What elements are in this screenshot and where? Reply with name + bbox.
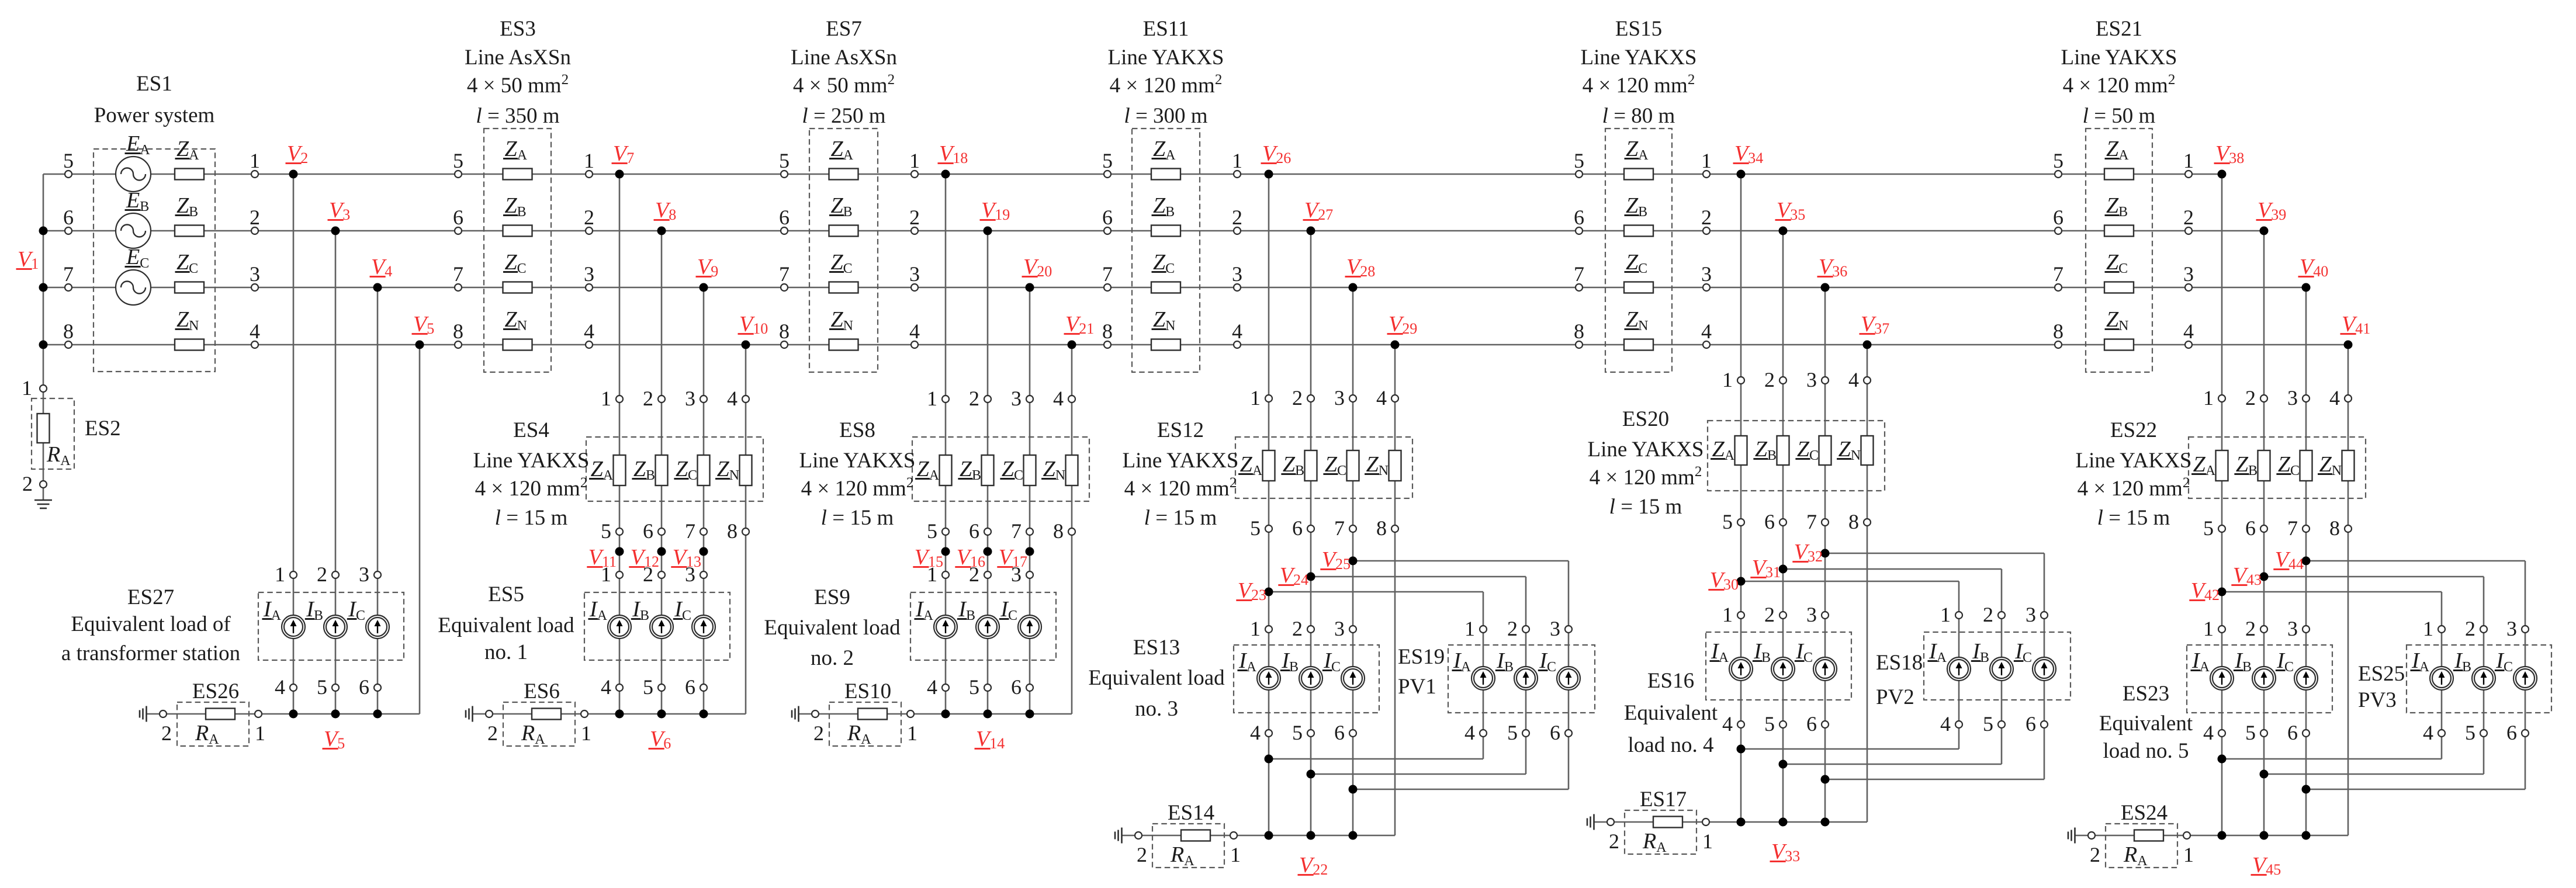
svg-text:1: 1 [601,563,611,586]
svg-text:1: 1 [1701,149,1712,172]
svg-text:3: 3 [250,262,260,286]
svg-text:2: 2 [909,206,920,229]
svg-text:1: 1 [909,149,920,172]
svg-text:2: 2 [2090,843,2100,866]
svg-text:2: 2 [2245,386,2256,410]
svg-text:ES7: ES7 [826,17,862,41]
svg-text:7: 7 [2287,516,2298,540]
svg-text:4: 4 [250,320,260,343]
svg-text:4: 4 [1940,712,1951,736]
svg-text:Line YAKXS: Line YAKXS [1587,438,1704,462]
svg-text:2: 2 [1764,368,1775,391]
svg-text:ES24: ES24 [2121,801,2168,825]
svg-text:PV2: PV2 [1876,685,1914,709]
svg-text:1: 1 [250,149,260,172]
svg-text:no. 2: no. 2 [811,646,854,670]
svg-text:2: 2 [487,721,498,745]
svg-text:8: 8 [453,320,463,343]
svg-text:5: 5 [969,675,979,699]
svg-text:6: 6 [2506,721,2517,744]
svg-text:ES25: ES25 [2358,662,2405,686]
svg-text:6: 6 [1764,510,1775,533]
svg-text:ES6: ES6 [524,679,560,703]
svg-text:4 × 120 mm2: 4 × 120 mm2 [1590,464,1702,490]
svg-text:l = 350 m: l = 350 m [476,104,559,128]
svg-text:6: 6 [2287,721,2298,744]
svg-text:6: 6 [685,675,695,699]
svg-text:8: 8 [1376,516,1387,540]
svg-text:2: 2 [1983,603,1993,626]
svg-text:2: 2 [1292,386,1303,410]
svg-text:PV1: PV1 [1398,675,1436,699]
svg-text:ES15: ES15 [1615,17,1662,41]
svg-text:ES12: ES12 [1157,418,1204,442]
svg-text:4: 4 [2183,320,2194,343]
svg-text:Line AsXSn: Line AsXSn [465,46,571,70]
svg-text:4: 4 [601,675,611,699]
svg-text:3: 3 [2287,386,2298,410]
svg-text:5: 5 [1102,149,1113,172]
svg-text:4: 4 [1232,320,1242,343]
svg-text:3: 3 [685,563,695,586]
svg-text:1: 1 [1722,368,1733,391]
svg-text:2: 2 [2245,617,2256,640]
svg-text:2: 2 [22,472,33,495]
svg-text:5: 5 [1764,712,1775,736]
svg-text:7: 7 [63,262,74,286]
svg-text:Line AsXSn: Line AsXSn [791,46,897,70]
svg-text:1: 1 [2203,617,2214,640]
svg-text:4: 4 [927,675,937,699]
svg-text:8: 8 [2053,320,2063,343]
svg-text:4: 4 [1250,721,1261,744]
svg-text:1: 1 [581,721,591,745]
svg-text:2: 2 [161,721,172,745]
svg-text:a transformer station: a transformer station [61,641,240,665]
svg-text:2: 2 [250,206,260,229]
svg-text:3: 3 [1334,386,1345,410]
svg-text:6: 6 [1102,206,1113,229]
svg-text:1: 1 [584,149,594,172]
svg-text:8: 8 [727,519,738,543]
svg-text:no. 1: no. 1 [484,640,528,664]
svg-text:3: 3 [1550,617,1560,640]
svg-text:4 × 120 mm2: 4 × 120 mm2 [1124,475,1237,501]
svg-text:load no. 5: load no. 5 [2103,739,2189,763]
svg-text:4 × 120 mm2: 4 × 120 mm2 [475,475,588,501]
svg-text:6: 6 [969,519,979,543]
svg-text:ES13: ES13 [1133,636,1180,660]
svg-text:1: 1 [22,376,32,400]
svg-text:8: 8 [1053,519,1064,543]
svg-text:4: 4 [727,387,738,410]
svg-text:4 × 120 mm2: 4 × 120 mm2 [1583,72,1695,98]
svg-text:l = 50 m: l = 50 m [2083,104,2156,128]
svg-text:Line YAKXS: Line YAKXS [473,449,589,473]
svg-text:8: 8 [1574,320,1584,343]
svg-text:8: 8 [2329,516,2340,540]
svg-text:7: 7 [1102,262,1113,286]
svg-text:ES19: ES19 [1398,645,1445,669]
svg-text:1: 1 [1230,843,1241,866]
svg-text:6: 6 [359,675,369,699]
svg-text:3: 3 [1806,368,1817,391]
svg-text:ES11: ES11 [1143,17,1189,41]
svg-text:1: 1 [255,721,265,745]
svg-text:5: 5 [1722,510,1733,533]
svg-text:2: 2 [1137,843,1147,866]
svg-text:l = 15 m: l = 15 m [1144,506,1217,530]
svg-text:1: 1 [927,563,937,586]
svg-text:8: 8 [63,320,74,343]
svg-text:5: 5 [779,149,790,172]
svg-text:5: 5 [1507,721,1518,744]
svg-text:2: 2 [2183,206,2194,229]
svg-text:4 × 50 mm2: 4 × 50 mm2 [793,72,895,98]
svg-text:load no. 4: load no. 4 [1628,733,1714,757]
svg-text:Equivalent: Equivalent [1624,701,1718,725]
svg-text:5: 5 [643,675,653,699]
svg-text:4: 4 [1722,712,1733,736]
svg-text:7: 7 [1011,519,1022,543]
svg-text:3: 3 [909,262,920,286]
svg-text:1: 1 [927,387,937,410]
svg-text:4: 4 [1701,320,1712,343]
svg-text:ES5: ES5 [488,582,524,606]
svg-text:2: 2 [317,563,327,586]
svg-text:7: 7 [1334,516,1345,540]
svg-text:1: 1 [601,387,611,410]
svg-text:4: 4 [275,675,285,699]
svg-text:ES27: ES27 [127,585,174,609]
svg-text:6: 6 [1011,675,1022,699]
svg-text:no. 3: no. 3 [1135,697,1178,721]
svg-text:1: 1 [1722,603,1733,626]
svg-text:2: 2 [643,387,653,410]
svg-text:6: 6 [1550,721,1560,744]
svg-text:4: 4 [2203,721,2214,744]
svg-text:2: 2 [813,721,824,745]
svg-text:2: 2 [643,563,653,586]
svg-text:ES10: ES10 [844,679,891,703]
svg-text:4 × 120 mm2: 4 × 120 mm2 [1110,72,1223,98]
svg-text:6: 6 [2053,206,2063,229]
svg-text:ES18: ES18 [1876,651,1923,675]
svg-text:4: 4 [584,320,594,343]
svg-text:Line YAKXS: Line YAKXS [2075,449,2191,473]
svg-text:1: 1 [1250,386,1261,410]
svg-text:l = 15 m: l = 15 m [821,506,894,530]
svg-text:4: 4 [2423,721,2433,744]
svg-text:1: 1 [1464,617,1475,640]
svg-text:Line YAKXS: Line YAKXS [1107,46,1224,70]
svg-text:2: 2 [1609,830,1619,853]
svg-text:3: 3 [1011,563,1022,586]
svg-text:4 × 120 mm2: 4 × 120 mm2 [2063,72,2176,98]
svg-text:3: 3 [1806,603,1817,626]
svg-text:8: 8 [1848,510,1859,533]
svg-text:5: 5 [2245,721,2256,744]
svg-text:1: 1 [1232,149,1242,172]
svg-text:3: 3 [1011,387,1022,410]
svg-text:6: 6 [1334,721,1345,744]
svg-text:1: 1 [1702,830,1713,853]
svg-text:5: 5 [2203,516,2214,540]
svg-text:6: 6 [2026,712,2036,736]
svg-text:Line YAKXS: Line YAKXS [1122,449,1238,473]
svg-text:PV3: PV3 [2358,688,2397,712]
svg-text:4 × 120 mm2: 4 × 120 mm2 [801,475,914,501]
svg-text:6: 6 [2245,516,2256,540]
svg-text:8: 8 [779,320,790,343]
svg-text:7: 7 [1806,510,1817,533]
svg-text:5: 5 [601,519,611,543]
svg-text:l = 300 m: l = 300 m [1124,104,1207,128]
svg-text:3: 3 [2183,262,2194,286]
svg-text:l = 15 m: l = 15 m [495,506,568,530]
svg-text:6: 6 [63,206,74,229]
svg-text:3: 3 [584,262,594,286]
svg-text:Line YAKXS: Line YAKXS [2061,46,2177,70]
svg-text:4: 4 [1848,368,1859,391]
svg-text:2: 2 [2465,617,2475,640]
svg-text:5: 5 [317,675,327,699]
svg-text:6: 6 [1574,206,1584,229]
svg-text:1: 1 [907,721,917,745]
svg-text:ES1: ES1 [136,72,172,96]
svg-text:ES16: ES16 [1647,669,1694,693]
svg-text:Power system: Power system [94,103,215,127]
svg-text:1: 1 [1940,603,1951,626]
svg-text:Equivalent load: Equivalent load [438,613,574,637]
svg-text:ES22: ES22 [2110,418,2157,442]
svg-text:3: 3 [359,563,369,586]
svg-text:ES17: ES17 [1640,788,1687,811]
svg-text:4: 4 [1464,721,1475,744]
svg-text:ES8: ES8 [839,418,875,442]
svg-text:5: 5 [1574,149,1584,172]
svg-text:5: 5 [1983,712,1993,736]
svg-text:3: 3 [2287,617,2298,640]
svg-text:2: 2 [1232,206,1242,229]
svg-text:ES9: ES9 [814,585,850,609]
svg-text:5: 5 [63,149,74,172]
svg-text:5: 5 [453,149,463,172]
svg-text:ES23: ES23 [2123,682,2169,706]
svg-text:1: 1 [2423,617,2433,640]
svg-text:7: 7 [2053,262,2063,286]
svg-text:4 × 50 mm2: 4 × 50 mm2 [467,72,569,98]
svg-text:4: 4 [1376,386,1387,410]
svg-text:4: 4 [2329,386,2340,410]
svg-text:Equivalent: Equivalent [2099,712,2193,736]
svg-text:7: 7 [685,519,695,543]
svg-text:1: 1 [2183,149,2194,172]
svg-text:4: 4 [1053,387,1064,410]
svg-text:Line YAKXS: Line YAKXS [1580,46,1696,70]
svg-text:3: 3 [685,387,695,410]
svg-text:2: 2 [969,387,979,410]
svg-text:6: 6 [779,206,790,229]
svg-text:ES3: ES3 [500,17,536,41]
svg-text:ES26: ES26 [192,679,239,703]
svg-text:Line YAKXS: Line YAKXS [799,449,915,473]
svg-text:7: 7 [1574,262,1584,286]
svg-text:3: 3 [2506,617,2517,640]
svg-text:ES14: ES14 [1168,801,1214,825]
svg-text:4 × 120 mm2: 4 × 120 mm2 [2078,475,2190,501]
svg-text:6: 6 [643,519,653,543]
svg-text:2: 2 [584,206,594,229]
svg-text:4: 4 [909,320,920,343]
svg-text:5: 5 [1292,721,1303,744]
svg-text:5: 5 [1250,516,1261,540]
svg-text:2: 2 [1292,617,1303,640]
svg-text:1: 1 [1250,617,1261,640]
svg-text:l = 15 m: l = 15 m [2097,506,2170,530]
svg-text:Equivalent load of: Equivalent load of [71,612,231,636]
svg-text:5: 5 [2053,149,2063,172]
svg-text:8: 8 [1102,320,1113,343]
svg-text:2: 2 [1507,617,1518,640]
svg-text:6: 6 [1292,516,1303,540]
svg-text:2: 2 [1701,206,1712,229]
svg-text:ES20: ES20 [1622,407,1669,431]
svg-text:ES2: ES2 [85,417,121,440]
svg-text:3: 3 [1232,262,1242,286]
svg-text:2: 2 [1764,603,1775,626]
svg-text:ES21: ES21 [2096,17,2142,41]
svg-text:3: 3 [2026,603,2036,626]
svg-text:l = 80 m: l = 80 m [1602,104,1675,128]
svg-text:6: 6 [453,206,463,229]
svg-text:3: 3 [1701,262,1712,286]
svg-text:6: 6 [1806,712,1817,736]
svg-text:2: 2 [969,563,979,586]
svg-text:l = 15 m: l = 15 m [1609,495,1682,519]
svg-text:3: 3 [1334,617,1345,640]
svg-text:5: 5 [927,519,937,543]
svg-text:ES4: ES4 [513,418,549,442]
svg-text:5: 5 [2465,721,2475,744]
svg-text:Equivalent load: Equivalent load [764,616,901,640]
svg-text:l = 250 m: l = 250 m [802,104,885,128]
svg-text:Equivalent load: Equivalent load [1088,666,1225,690]
svg-text:7: 7 [453,262,463,286]
svg-text:1: 1 [275,563,285,586]
svg-text:1: 1 [2203,386,2214,410]
svg-text:1: 1 [2183,843,2194,866]
svg-text:7: 7 [779,262,790,286]
